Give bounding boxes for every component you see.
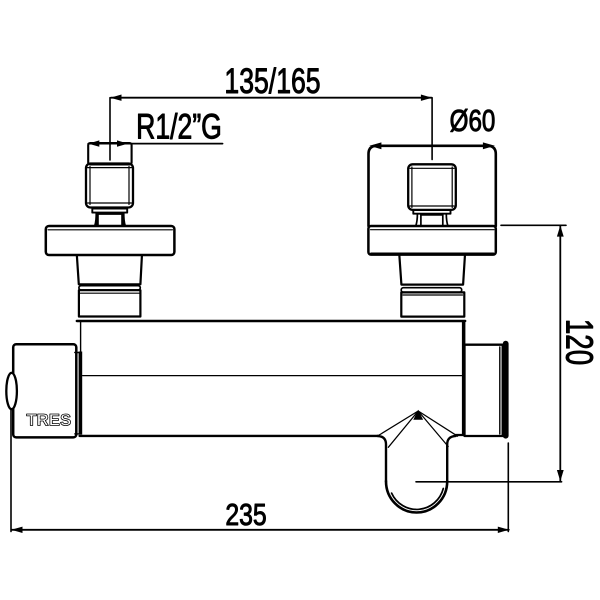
body left upper edge xyxy=(80,322,82,352)
left neck line xyxy=(99,213,122,215)
right nut collar xyxy=(413,210,450,214)
dimension 135/165 left extension xyxy=(109,98,111,160)
cone line far right xyxy=(418,411,457,436)
svg-text:135/165: 135/165 xyxy=(224,61,320,100)
right cap inner line xyxy=(499,347,501,434)
left lower cylinder xyxy=(79,290,140,316)
cone line far left xyxy=(377,411,418,436)
svg-text:R1/2”G: R1/2”G xyxy=(136,107,222,146)
right neck leg left xyxy=(416,214,421,226)
right wall flange xyxy=(368,226,495,255)
lever knob ellipse xyxy=(6,373,17,409)
body right edge bar xyxy=(462,322,466,436)
dimension 235 left extension xyxy=(10,410,12,532)
outlet U right wall xyxy=(447,436,456,481)
left ring xyxy=(79,286,140,290)
left upper cylinder xyxy=(77,256,142,284)
svg-text:Ø60: Ø60 xyxy=(450,103,496,138)
outlet U left wall xyxy=(377,436,386,481)
left nut collar xyxy=(92,209,127,213)
left lever cap xyxy=(13,344,76,437)
left inlet nut top thread piece xyxy=(88,143,131,165)
dimension 120 top extension xyxy=(501,224,566,226)
dimension 135/165 right extension xyxy=(431,98,433,160)
cone apex xyxy=(413,410,423,420)
outlet U bottom arc xyxy=(386,481,447,512)
body left joint bar xyxy=(79,352,83,435)
body mid highlight line xyxy=(83,375,462,377)
dimension 135/165 line xyxy=(110,95,432,101)
svg-text:235: 235 xyxy=(225,497,266,531)
left inlet nut body xyxy=(86,164,133,208)
right upper cylinder xyxy=(399,256,465,285)
square escutcheon plate (O60) xyxy=(369,146,496,226)
left neck leg right xyxy=(121,213,126,226)
body bottom edge left xyxy=(80,435,379,437)
cap joint line top xyxy=(75,352,80,354)
body top edge xyxy=(77,320,465,322)
dimension 120 line xyxy=(557,225,564,481)
cone line inner left xyxy=(388,411,418,447)
left neck leg left xyxy=(94,213,99,226)
cap joint line bottom xyxy=(75,433,80,435)
left wall flange xyxy=(46,226,175,255)
right inlet nut body xyxy=(408,164,456,210)
right end cap xyxy=(465,345,503,436)
svg-text:TRES: TRES xyxy=(26,411,71,430)
dimension 235 right extension xyxy=(507,443,509,532)
O60 dimension arrows xyxy=(369,142,495,149)
svg-text:120: 120 xyxy=(557,319,599,365)
dimension 120 bottom extension xyxy=(416,481,562,483)
dimension 235 line xyxy=(11,527,509,533)
right neck leg right xyxy=(443,214,448,226)
body bottom edge right xyxy=(456,434,464,436)
dimension R1/2"G line xyxy=(88,140,222,146)
right ring xyxy=(401,288,462,293)
right neck line xyxy=(421,214,443,216)
right lower cylinder xyxy=(401,292,464,316)
cone line inner right xyxy=(418,411,448,447)
right cap rim bar xyxy=(503,341,509,439)
outlet U inner arc xyxy=(392,489,444,510)
